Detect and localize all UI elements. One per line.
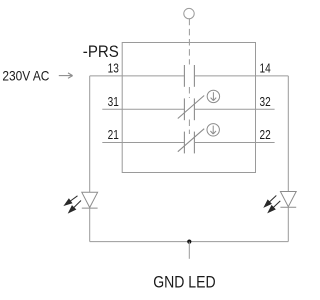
contact K3 NC contact: [178, 129, 204, 154]
svg-text:230V AC: 230V AC: [2, 67, 49, 83]
LED D1 left: [82, 192, 98, 208]
svg-text:GND LED: GND LED: [153, 273, 215, 292]
enclosure box -PRS: [122, 43, 255, 173]
wire 230V feed to contact 13: [90, 75, 185, 77]
junction dot: [187, 240, 191, 244]
wire stub 22: [194, 142, 274, 144]
wire right LED to bottom: [287, 207, 289, 241]
contact K2 NC contact: [178, 96, 204, 121]
svg-text:32: 32: [260, 95, 271, 109]
indicator lamp symbol 2: [207, 124, 219, 136]
contact K1 NO contact: [184, 65, 194, 87]
wire contact 14 to right drop: [194, 75, 288, 77]
wire GND stub: [188, 242, 190, 259]
svg-text:14: 14: [260, 62, 271, 76]
wire stub 21: [102, 142, 184, 144]
wire stub 31: [102, 108, 184, 110]
indicator lamp symbol 1: [207, 90, 219, 102]
wire bottom rail: [90, 241, 289, 243]
wire right vertical drop: [287, 76, 289, 192]
wire stub 32: [194, 108, 274, 110]
LED D1 light arrows: [65, 196, 81, 213]
LED D2 light arrows: [264, 196, 280, 213]
wire left LED to bottom: [89, 208, 91, 241]
LED D2 right: [280, 192, 296, 208]
svg-text:21: 21: [108, 128, 119, 142]
wire left vertical drop: [89, 76, 91, 192]
svg-text:31: 31: [108, 95, 119, 109]
svg-text:22: 22: [260, 128, 271, 142]
mechanical link dashed line: [188, 19, 190, 134]
svg-text:-PRS: -PRS: [83, 42, 119, 61]
feed arrow: [59, 73, 73, 78]
actuator head circle: [184, 8, 194, 18]
svg-text:13: 13: [108, 62, 119, 76]
